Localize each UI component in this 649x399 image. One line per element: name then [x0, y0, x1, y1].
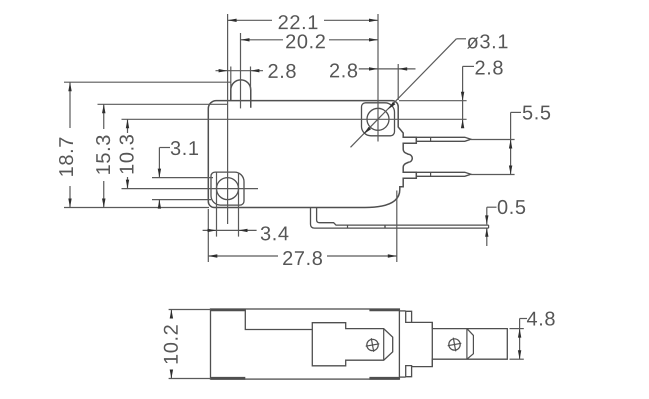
extension line body top right — [399, 100, 467, 102]
lever strip — [311, 208, 489, 229]
bottom view rim thick segments — [211, 310, 399, 378]
dimension 0.5 — [485, 200, 525, 246]
extension line plunger left edge — [230, 67, 232, 90]
screw cross symbol 1 — [366, 338, 380, 352]
mounting boss square TR — [362, 103, 395, 136]
centreline V through BL hole — [227, 14, 229, 224]
extension line hole right 3.4 — [238, 173, 240, 237]
centreline V through TR hole — [377, 14, 379, 142]
extension line 27.8 left — [207, 209, 209, 262]
extension line 18.7 top — [64, 81, 231, 83]
bottom view body outline — [211, 309, 400, 379]
extension line T1 tip — [471, 139, 515, 141]
centreline V plunger — [240, 33, 242, 108]
mounting boss square BL — [211, 172, 244, 205]
dimension 2.8 top-left — [216, 64, 296, 78]
dimension 4.8 — [510, 312, 555, 360]
dimension 27.8 — [208, 251, 396, 265]
dimension 10.2 — [164, 310, 211, 379]
dimension 22.1 — [228, 15, 378, 29]
dimension 2.8 top-right — [330, 63, 415, 77]
centreline H through TR hole — [122, 118, 467, 120]
extension line body bottom left — [64, 207, 209, 209]
extension line 27.8 right — [396, 191, 398, 263]
extension line T2 tip — [471, 174, 515, 176]
switch body outline — [208, 101, 416, 208]
dimension 3.1 — [158, 141, 198, 209]
right side tab upper — [399, 311, 411, 323]
terminal blade T2 — [416, 172, 471, 176]
centreline H through BL hole — [122, 188, 259, 190]
mounting hole circle TR — [367, 108, 389, 130]
dimension 18.7 — [59, 82, 73, 207]
dimension 5.5 — [509, 106, 550, 175]
extension line 15.3 top — [98, 103, 228, 105]
dimension 2.8 right vertical — [461, 61, 503, 129]
dimension diameter 3.1 leader — [351, 34, 508, 147]
dimension 3.4 — [203, 226, 289, 240]
extension line hole bottom 3.1 — [152, 199, 211, 201]
extension line hole top 3.1 — [152, 177, 213, 179]
protruding terminal blade — [432, 322, 507, 366]
screw cross symbol 2 — [448, 338, 462, 352]
terminal blade T1 — [416, 137, 471, 141]
bottom view inner step — [245, 309, 312, 330]
protruding terminal collar — [412, 322, 433, 366]
mounting hole circle BL — [217, 178, 239, 200]
common terminal holder — [312, 323, 392, 366]
extension line plunger right edge — [250, 67, 252, 90]
dimension 15.3 — [96, 104, 110, 207]
extension line hole left 3.4 — [216, 173, 218, 237]
dimension 10.3 — [120, 119, 134, 188]
plunger button — [231, 80, 251, 108]
dimension 20.2 — [241, 34, 379, 48]
extension line body right edge up — [397, 64, 399, 100]
right side tab lower — [399, 366, 411, 378]
